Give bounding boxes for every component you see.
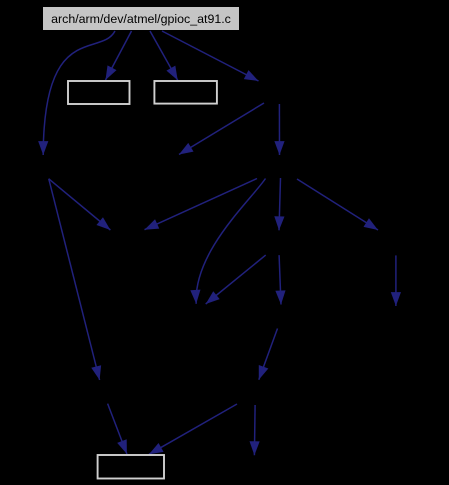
svg-text:arch/arm/dev/atmel/gpioc_at91.: arch/arm/dev/atmel/gpioc_at91.c (51, 12, 231, 26)
